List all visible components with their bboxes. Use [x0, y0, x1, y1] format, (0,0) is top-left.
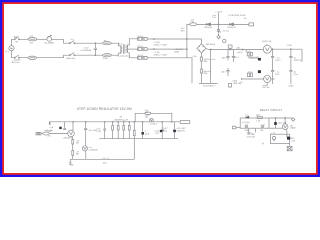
svg-text:R(2-x): R(2-x)	[138, 36, 144, 38]
svg-text:4M: 4M	[145, 112, 148, 114]
svg-text:+2-B: +2-B	[291, 141, 296, 143]
svg-text:rwxB(2-B): rwxB(2-B)	[89, 150, 98, 152]
svg-text:(24.8V +B): (24.8V +B)	[262, 41, 272, 43]
svg-text:(58xx Bkr): (58xx Bkr)	[66, 58, 75, 60]
svg-text:(-12x: (-12x	[192, 56, 196, 58]
svg-text:+L-5(15M-A): +L-5(15M-A)	[80, 49, 92, 52]
svg-text:+(B2 +BB: +(B2 +BB	[278, 122, 287, 124]
svg-text:OhBr: OhBr	[244, 130, 249, 132]
svg-text:+xB(7)(2m): +xB(7)(2m)	[63, 138, 73, 140]
svg-text:(x): (x)	[262, 143, 265, 145]
svg-text:(m: (m	[252, 134, 255, 136]
svg-text:B2u): B2u)	[163, 131, 168, 133]
svg-text:+B(.7: +B(.7	[221, 72, 226, 74]
svg-text:(-B): (-B)	[70, 165, 74, 167]
svg-text:N5Ru: N5Ru	[103, 58, 108, 60]
svg-text:L(~): L(~)	[5, 51, 9, 53]
svg-text:D1x: D1x	[30, 43, 34, 45]
svg-text:(2(.B: (2(.B	[145, 133, 150, 135]
svg-text:R(2-x): R(2-x)	[138, 46, 144, 48]
svg-text:No-2(B)Mx: No-2(B)Mx	[44, 43, 54, 45]
svg-text:(2B)B~: (2B)B~	[290, 128, 297, 130]
svg-text:25xTY: 25xTY	[275, 60, 281, 62]
svg-text:+2uF ((7)x: +2uF ((7)x	[246, 137, 255, 139]
svg-text:4(-T): 4(-T)	[118, 44, 123, 46]
svg-text:-0.7MO220F 10.2M: -0.7MO220F 10.2M	[228, 15, 246, 17]
svg-text:(A): (A)	[145, 115, 148, 118]
svg-text:+R(B)-7 120M: +R(B)-7 120M	[153, 54, 167, 56]
svg-text:+.57 +.2: +.57 +.2	[102, 158, 110, 160]
svg-text:4.9x: 4.9x	[212, 17, 216, 19]
svg-text:+.7B): +.7B)	[96, 131, 101, 133]
svg-text:RELAY CIRCUIT: RELAY CIRCUIT	[260, 108, 283, 112]
svg-text:B(u): B(u)	[204, 73, 208, 75]
svg-text:R(2m)+B: R(2m)+B	[204, 27, 212, 29]
svg-text:7.0k: 7.0k	[190, 22, 194, 24]
svg-text:AC-120x: AC-120x	[12, 61, 20, 64]
svg-text:R(2-x): R(2-x)	[138, 55, 144, 57]
svg-text:10(B)~B(: 10(B)~B(	[177, 130, 185, 132]
svg-text:+(B.7)#: +(B.7)#	[237, 52, 244, 54]
svg-text:+(B(.7: +(B(.7	[221, 57, 226, 59]
svg-text:(2m): (2m)	[103, 163, 107, 165]
svg-text:502T Ba: 502T Ba	[262, 87, 270, 89]
svg-text:+Ru: +Ru	[47, 136, 51, 138]
svg-text:(B+7: (B+7	[235, 57, 239, 59]
svg-text:7MO: 7MO	[181, 30, 186, 32]
svg-text:25xT~: 25xT~	[275, 74, 281, 76]
svg-text:4.7x: 4.7x	[248, 71, 252, 73]
svg-text:+C (B(.w: +C (B(.w	[149, 123, 157, 125]
svg-text:+7.20V: +7.20V	[215, 11, 223, 13]
svg-text:-(2m)OhB(7)~7: -(2m)OhB(7)~7	[203, 86, 216, 88]
svg-text:uR62R5Ru(+2R: uR62R5Ru(+2R	[114, 119, 129, 121]
svg-text:(B2M: (B2M	[175, 51, 180, 53]
svg-text:27.8K: 27.8K	[287, 45, 293, 47]
svg-text:+R(B)-7 120M: +R(B)-7 120M	[153, 45, 167, 47]
svg-text:-x (B: -x (B	[49, 127, 54, 129]
svg-text:+(B): +(B)	[236, 47, 240, 49]
svg-text:+C+(x)D+(2x): +C+(x)D+(2x)	[117, 56, 130, 58]
svg-text:(7)BC: (7)BC	[289, 86, 295, 88]
svg-text:+5-: +5-	[240, 82, 243, 84]
svg-text:5TEP-DOWN RE6ULAT0R 15V-5M: 5TEP-DOWN RE6ULAT0R 15V-5M	[77, 107, 132, 111]
svg-text:+7k: +7k	[247, 51, 250, 53]
svg-text:TMR#T8: TMR#T8	[294, 60, 301, 62]
svg-text:4M2: 4M2	[204, 61, 208, 63]
svg-text:+7.5-72x: +7.5-72x	[222, 31, 229, 33]
svg-text:N-(2m)+B: N-(2m)+B	[227, 27, 236, 29]
svg-text:4M7 B(2m): 4M7 B(2m)	[206, 44, 216, 46]
svg-text:(T)xx: (T)xx	[294, 74, 298, 76]
svg-text:+T.u: +T.u	[271, 133, 275, 135]
